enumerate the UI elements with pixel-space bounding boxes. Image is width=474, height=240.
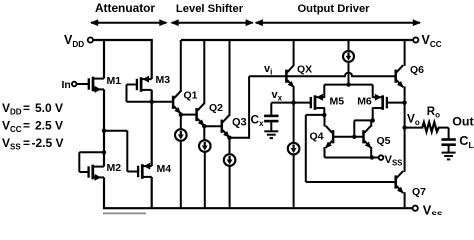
wire Q7 emitter to VSS rail — [404, 192, 406, 209]
node source tie junction — [346, 82, 350, 86]
svg-text:QX: QX — [297, 64, 312, 76]
svg-text:VDD: VDD — [64, 33, 84, 49]
svg-text:Q6: Q6 — [410, 64, 424, 76]
wire bias to source tie — [348, 62, 350, 85]
wire Q3 collector to VCC rail — [229, 40, 231, 116]
wire vx line — [271, 102, 311, 104]
svg-text:Q4: Q4 — [310, 131, 324, 143]
svg-text:VSS: VSS — [2, 136, 21, 152]
svg-text:Attenuator: Attenuator — [95, 1, 155, 15]
node M6 gate-vo junction — [402, 100, 406, 104]
transistor Q4 — [332, 130, 335, 143]
wire QX collector to VCC rail — [293, 40, 295, 66]
svg-text:5.0 V: 5.0 V — [35, 101, 63, 115]
node M2 drain-gate junction — [102, 150, 106, 154]
svg-text:M4: M4 — [157, 163, 172, 175]
svg-text:M5: M5 — [330, 96, 345, 108]
transistor M2 — [87, 166, 89, 177]
wire VDD rail corner to M3 — [151, 40, 153, 79]
svg-text:Level Shifter: Level Shifter — [176, 3, 244, 15]
svg-text:=: = — [23, 136, 30, 150]
node Q2 emitter junction — [202, 124, 206, 128]
wire In to M1 gate — [77, 83, 89, 85]
wire vo to resistor — [405, 127, 424, 129]
ground for Cx — [264, 130, 278, 132]
wire I3 to VSS rail — [229, 166, 231, 209]
Vss bottom terminal — [413, 206, 418, 211]
wire down to Q7 base — [305, 115, 307, 182]
wire Q5 collector up — [370, 120, 372, 127]
wire Q2 collector to VCC rail — [203, 40, 205, 104]
svg-text:Q3: Q3 — [232, 117, 247, 129]
wire M2 drain stub — [103, 152, 105, 166]
svg-text:CL: CL — [459, 134, 473, 150]
svg-text:vx: vx — [272, 89, 283, 102]
node M6 drain junction — [371, 118, 375, 122]
wire Q5 emitter down — [370, 147, 372, 158]
transistor Q2 — [195, 108, 198, 121]
svg-text:Ro: Ro — [427, 106, 440, 120]
M4 gate lead — [127, 171, 137, 173]
svg-text:Out: Out — [452, 114, 473, 128]
transistor M1 — [88, 78, 90, 89]
svg-text:Q7: Q7 — [412, 186, 426, 198]
transistor QX — [285, 70, 288, 83]
node M5 drain junction — [322, 113, 326, 117]
transistor M5 — [310, 97, 312, 108]
wire Q3 emitter to vi riser — [230, 137, 250, 139]
VCC terminal — [413, 37, 418, 42]
svg-text:2.5 V: 2.5 V — [35, 119, 63, 133]
wire I4 to VSS rail — [293, 154, 295, 209]
wire M5 drain stub left — [306, 114, 325, 116]
node Q1 emitter junction — [179, 112, 183, 116]
current source I1 — [175, 129, 187, 141]
M3 gate loop — [127, 84, 136, 86]
wire M6 source up — [372, 85, 374, 98]
wire out corner down to CL — [448, 128, 450, 140]
wire M2 source to VSS rail — [103, 177, 105, 208]
svg-text:-2.5 V: -2.5 V — [32, 136, 64, 150]
M2 gate loop — [79, 151, 104, 153]
wire down to M2 drain — [103, 131, 105, 154]
wire M3 source down to M4 — [151, 90, 153, 166]
node emitter line junction — [370, 155, 374, 159]
In terminal — [72, 82, 77, 87]
wire node to M4 gate branch — [104, 130, 127, 132]
wire Q4-Q5 base line — [333, 136, 363, 138]
transistor Q3 — [221, 120, 224, 133]
wire QX emitter down — [293, 86, 295, 143]
transistor M4 — [137, 166, 139, 177]
VDD terminal — [88, 37, 93, 42]
svg-text:M1: M1 — [107, 75, 122, 87]
svg-text:VCC: VCC — [422, 33, 442, 49]
transistor Q5 — [362, 130, 365, 143]
wire Q7 base line — [306, 181, 396, 183]
wire Q1 emitter down — [180, 113, 182, 130]
wire M5 source up — [323, 85, 325, 98]
wire Q4 emitter down — [324, 147, 326, 158]
wire I1 to VSS rail — [180, 141, 182, 209]
transistor M6 — [386, 97, 388, 108]
node base line junction — [352, 135, 356, 139]
wire Q2 emitter down — [203, 125, 205, 141]
wire M5 drain down — [323, 107, 325, 116]
wire Q3 base line — [204, 125, 221, 127]
svg-text:vi: vi — [264, 63, 272, 76]
wire vi line with hop over bias wire — [249, 73, 396, 77]
node vx junction — [291, 100, 295, 104]
wire I2 to VSS rail — [204, 152, 206, 209]
VSS bottom rail — [103, 207, 413, 209]
ground for CL — [442, 152, 456, 154]
svg-text:=: = — [23, 119, 30, 133]
VDD rail — [93, 39, 153, 41]
svg-text:Cx: Cx — [251, 113, 265, 129]
current source I5 — [343, 51, 354, 62]
svg-text:M2: M2 — [107, 162, 122, 174]
current source I3 — [224, 154, 236, 166]
wire Q4 collector up — [324, 115, 326, 127]
wire Cx to ground — [270, 122, 272, 131]
wire vx corner down to Cx — [270, 103, 272, 116]
capacitor Cx — [264, 115, 278, 118]
svg-text:Output Driver: Output Driver — [297, 3, 370, 15]
node Q3 emitter junction — [227, 136, 231, 140]
svg-text:M6: M6 — [357, 96, 372, 108]
wire Q6 collector to VCC rail — [404, 40, 406, 66]
wire M1 drain to VDD rail — [103, 40, 105, 79]
wire Q3 emitter down — [229, 136, 231, 154]
node vo junction — [402, 125, 406, 129]
wire Q1 collector to VCC rail — [180, 40, 182, 92]
wire M6 gate to vo — [388, 102, 405, 104]
svg-text:VSS: VSS — [385, 154, 403, 167]
level shifter span arrow — [172, 22, 253, 24]
svg-text:VDD: VDD — [2, 101, 22, 117]
current source I4 — [288, 143, 300, 155]
current source I2 — [199, 140, 211, 152]
transistor Q7 — [394, 175, 397, 188]
node M1-M2 junction — [102, 129, 106, 133]
wire M6 drain down — [372, 107, 374, 121]
wire M4 source to VSS rail — [151, 177, 153, 209]
wire vi riser — [248, 76, 250, 139]
svg-text:In: In — [62, 79, 71, 91]
svg-text:Vo: Vo — [407, 111, 420, 127]
transistor Q6 — [394, 70, 397, 83]
wire mirror loop — [354, 119, 372, 121]
output driver span arrow — [256, 22, 420, 24]
capacitor CL — [441, 138, 455, 141]
svg-text:Q5: Q5 — [377, 135, 391, 147]
svg-text:Q1: Q1 — [184, 90, 198, 102]
wire resistor to out corner — [438, 127, 449, 129]
wire bias from VCC rail — [348, 40, 350, 51]
attenuator span arrow — [91, 22, 167, 24]
wire Q6 emitter down vo column — [404, 86, 406, 171]
resistor Ro — [422, 122, 438, 131]
wire CL to ground — [448, 146, 450, 153]
svg-text:Q2: Q2 — [209, 102, 223, 114]
wire node B line to Q1 base — [127, 101, 172, 103]
node B junction — [150, 100, 154, 104]
transistor Q1 — [172, 96, 175, 109]
VCC rail — [181, 39, 413, 41]
wire M1 source down — [103, 89, 105, 131]
svg-text:=: = — [23, 101, 30, 115]
svg-text:VCC: VCC — [2, 119, 22, 135]
wire Q2 base line — [181, 114, 197, 116]
svg-text:M3: M3 — [156, 74, 171, 86]
wire Q4-Q5 emitter line — [325, 157, 379, 159]
wire M5-M6 source tie — [324, 84, 372, 86]
svg-text:VSS: VSS — [423, 203, 443, 215]
VSS internal terminal — [379, 155, 384, 160]
transistor M3 — [136, 79, 138, 90]
scan artifact bar — [103, 212, 146, 214]
